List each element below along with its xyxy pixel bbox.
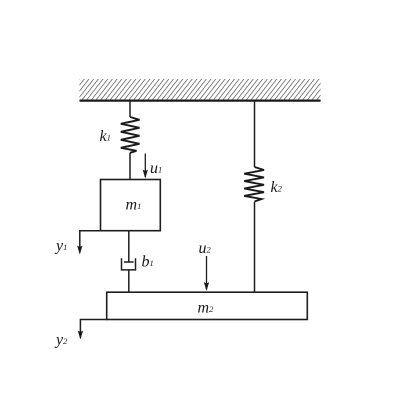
- svg-text:m1: m1: [126, 197, 142, 214]
- svg-text:u1: u1: [150, 160, 162, 177]
- svg-text:b1: b1: [142, 254, 154, 271]
- svg-text:y2: y2: [54, 332, 68, 349]
- damper b1: [122, 258, 136, 270]
- force arrow u1: [143, 154, 148, 179]
- label y2: [54, 332, 68, 349]
- svg-text:y1: y1: [54, 238, 67, 255]
- wire ceiling to spring k2: [254, 101, 256, 167]
- label b1: [142, 254, 154, 271]
- wire mass m1 to damper b1: [128, 231, 130, 262]
- label u2: [199, 240, 212, 257]
- displacement arrow y2: [78, 320, 107, 340]
- label k2: [271, 179, 283, 196]
- wire damper b1 to mass m2: [128, 270, 130, 292]
- label m2: [198, 300, 215, 317]
- wire spring k2 to mass m2: [254, 202, 256, 292]
- label u1: [150, 160, 162, 177]
- label k1: [100, 128, 111, 145]
- label y1: [54, 238, 67, 255]
- svg-text:u2: u2: [199, 240, 212, 257]
- svg-text:k2: k2: [271, 179, 283, 196]
- spring k2: [244, 167, 264, 202]
- label m1: [126, 197, 142, 214]
- svg-text:k1: k1: [100, 128, 111, 145]
- wire ceiling to spring k1: [129, 101, 131, 117]
- mass m2: [107, 292, 308, 319]
- wire spring k1 to mass m1: [129, 153, 131, 180]
- svg-text:m2: m2: [198, 300, 215, 317]
- displacement arrow y1: [77, 231, 100, 255]
- force arrow u2: [204, 256, 209, 291]
- spring k1: [121, 117, 140, 153]
- ceiling support (hatched): [80, 79, 321, 101]
- mass m1: [101, 180, 161, 231]
